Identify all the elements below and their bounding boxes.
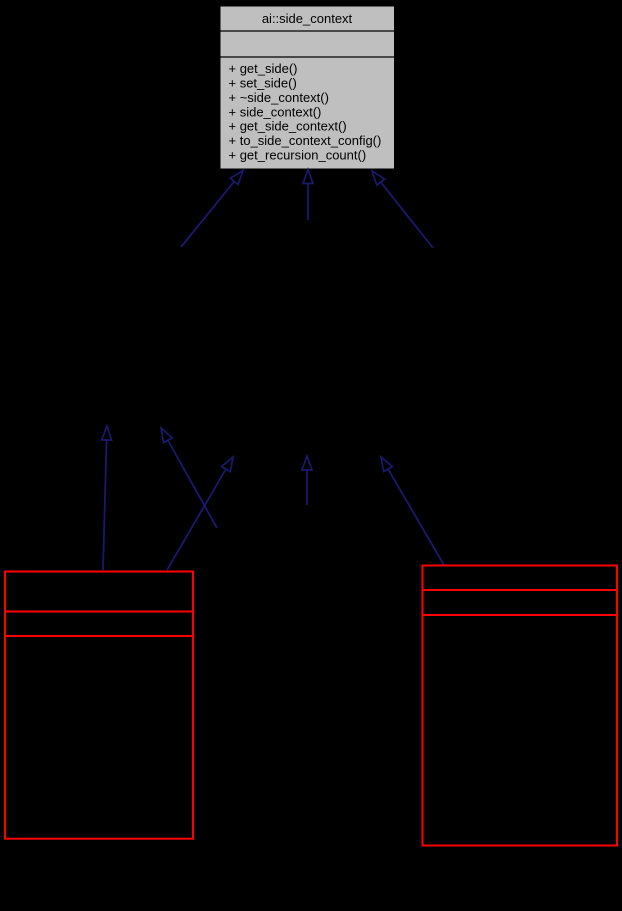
- svg-text:+ get_side_context(): + get_side_context(): [229, 119, 347, 134]
- svg-text:+ get_side(): + get_side(): [229, 61, 298, 76]
- inheritance arrow L1 (left box to hidden class, vertical): [102, 426, 112, 570]
- class box ai::side_context (focal node): [220, 6, 395, 169]
- inheritance arrow L4 (hidden box to hidden class, short vertical): [302, 456, 312, 505]
- inheritance arrow L2 (hidden box to hidden class, crossing): [161, 428, 217, 528]
- svg-text:+ get_recursion_count(): + get_recursion_count(): [229, 148, 367, 163]
- truncated class box (bottom right, red): [423, 566, 618, 846]
- inheritance arrow U1 (left derived class to ai::side_context): [181, 171, 243, 248]
- svg-text:+ to_side_context_config(): + to_side_context_config(): [229, 133, 382, 148]
- svg-text:+ set_side(): + set_side(): [229, 76, 297, 91]
- inheritance arrow L3 (left box to hidden class, crossing): [167, 457, 233, 570]
- svg-text:+ side_context(): + side_context(): [229, 104, 322, 119]
- inheritance arrow U3 (right derived class to ai::side_context): [372, 171, 433, 248]
- truncated class box (bottom left, red): [5, 572, 193, 839]
- inheritance arrow U2 (middle derived class to ai::side_context): [303, 170, 313, 221]
- inheritance arrow L5 (right box to hidden class): [381, 457, 444, 565]
- method list of ai::side_context: [229, 61, 382, 162]
- svg-text:+ ~side_context(): + ~side_context(): [229, 90, 329, 105]
- svg-text:ai::side_context: ai::side_context: [262, 11, 353, 26]
